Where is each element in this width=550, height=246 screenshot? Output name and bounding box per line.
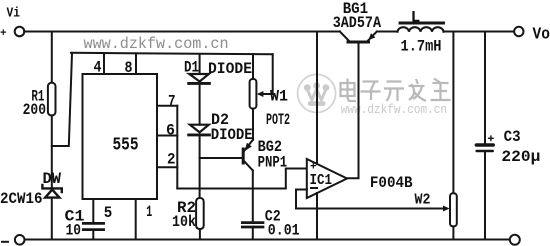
terminal Vi+ (15, 27, 25, 37)
svg-text:W2: W2 (415, 192, 431, 209)
resistor R1 (48, 83, 56, 116)
wire BG2 collector down through C2 (252, 171, 254, 223)
wire D1 to D2 (199, 85, 201, 125)
svg-text:3AD57A: 3AD57A (333, 14, 382, 32)
svg-text:W1: W1 (270, 87, 288, 105)
wire rail BG1 to inductor (377, 31, 398, 33)
svg-text:6: 6 (166, 121, 175, 139)
transistor BG1 right lead (368, 32, 377, 41)
wire pin 6 rung (157, 135, 177, 137)
wire C2 to bottom rail (252, 228, 254, 239)
svg-text:L: L (411, 9, 421, 27)
watermark logo circle W (298, 74, 336, 112)
svg-text:DIODE: DIODE (211, 126, 253, 144)
wire pin 8 (135, 53, 137, 74)
terminal bottom left (15, 235, 25, 245)
capacitor C3 plates (475, 143, 495, 152)
watermark chinese char zi (361, 82, 381, 101)
svg-text:5: 5 (104, 204, 113, 222)
potentiometer W1 wiper arrowhead (257, 91, 264, 97)
svg-text:DIODE: DIODE (208, 60, 252, 78)
svg-text:DW: DW (43, 170, 62, 188)
capacitor C2 (242, 223, 263, 227)
wire op-amp output (347, 43, 359, 178)
capacitor C1 (83, 223, 103, 229)
wire op-amp V- supply (316, 193, 318, 240)
potentiometer W1 wiper wire (260, 54, 273, 94)
wire right bus of 555 (176, 106, 178, 189)
op-amp IC1 triangle (307, 159, 347, 198)
wire W2 bottom lead (452, 226, 454, 239)
svg-text:2: 2 (167, 151, 176, 169)
transistor BG2 collector lead (245, 162, 253, 171)
svg-text:220μ: 220μ (501, 148, 540, 166)
inductor L core bar (400, 22, 444, 25)
wire pin 7 rung (157, 105, 177, 107)
svg-text:www.dzkfw.com.cn: www.dzkfw.com.cn (341, 102, 447, 117)
svg-text:2CW16: 2CW16 (0, 190, 43, 208)
transistor BG1 bar (348, 41, 369, 44)
potentiometer W2 wiper arrowhead (443, 206, 450, 212)
wire 555 supply link (52, 53, 72, 146)
wire op-amp minus input (296, 190, 307, 209)
watermark chinese char kai (384, 82, 404, 102)
svg-text:555: 555 (113, 135, 139, 155)
wire C3 to bottom rail (484, 152, 486, 239)
inductor L coil (398, 27, 444, 32)
wire zener to bottom rail (51, 198, 53, 240)
watermark chinese char dian (341, 79, 357, 102)
wire top line to D1 (199, 54, 201, 74)
svg-text:+: + (0, 28, 7, 40)
svg-text:Vo: Vo (533, 25, 550, 44)
transistor BG2 emitter arrowhead (245, 143, 252, 151)
svg-text:D1: D1 (184, 59, 199, 77)
wire trigger net to op-amp plus input (177, 169, 306, 189)
terminal bottom right (510, 235, 520, 245)
wire pin 4 (103, 53, 105, 74)
potentiometer W2 body (450, 193, 457, 226)
wire pin 2 rung (157, 166, 177, 168)
wire R1 to zener (51, 115, 53, 186)
wire 555 top supply line (71, 53, 273, 55)
transistor BG2 base bar (242, 149, 245, 163)
transistor BG1 left lead (340, 32, 349, 41)
svg-text:0.01: 0.01 (268, 222, 300, 240)
svg-text:1: 1 (146, 203, 152, 221)
diode D2 (189, 125, 210, 135)
transistor BG2 emitter lead (245, 140, 253, 151)
svg-text:10k: 10k (172, 213, 196, 231)
wire C1 to bottom rail (92, 231, 94, 240)
wire W2 top lead (452, 32, 454, 194)
zener diode DW (42, 185, 61, 198)
watermark chinese char fa (409, 79, 427, 101)
svg-text:POT2: POT2 (266, 111, 290, 129)
svg-text:8: 8 (125, 59, 133, 77)
watermark chinese char wang (431, 79, 451, 101)
IC 555 box (83, 74, 158, 199)
wire pin 5 (92, 199, 94, 222)
svg-text:C3: C3 (504, 128, 521, 146)
resistor R2 (196, 198, 204, 229)
wire D2 to R2 (199, 136, 201, 198)
diode D1 (189, 74, 210, 83)
svg-text:IC1: IC1 (310, 172, 333, 189)
wire top rail (24, 31, 340, 33)
label minus bottom left (2, 241, 8, 243)
svg-text:200: 200 (23, 101, 46, 119)
wire minus input to W2 wiper (296, 208, 447, 210)
potentiometer W1 body (250, 79, 257, 109)
svg-text:www.dzkfw.com.cn: www.dzkfw.com.cn (84, 35, 229, 53)
terminal Vo (514, 27, 523, 36)
wire base of BG2 (200, 157, 242, 159)
wire pin 1 (135, 199, 137, 240)
svg-text:7: 7 (168, 92, 176, 110)
potentiometer W1 top lead (252, 54, 254, 79)
wire R2 to bottom rail (199, 229, 201, 240)
wire op-amp V+ supply (316, 32, 318, 165)
wire C3 top lead (484, 32, 486, 144)
svg-text:F004B: F004B (370, 174, 413, 192)
svg-text:4: 4 (94, 59, 102, 77)
wire R1 drop from rail (51, 32, 53, 83)
svg-text:10: 10 (66, 222, 82, 240)
transistor BG1 arrowhead (368, 33, 375, 40)
op-amp minus sign (311, 187, 317, 189)
wire bottom rail (25, 239, 510, 241)
wire W1 to BG2 emitter (252, 109, 254, 140)
capacitor C3 plus mark (489, 136, 493, 140)
svg-text:PNP1: PNP1 (258, 154, 288, 172)
svg-text:Vi: Vi (7, 5, 21, 21)
svg-text:1.7mH: 1.7mH (401, 38, 442, 56)
wire inductor to Vo (444, 31, 515, 33)
